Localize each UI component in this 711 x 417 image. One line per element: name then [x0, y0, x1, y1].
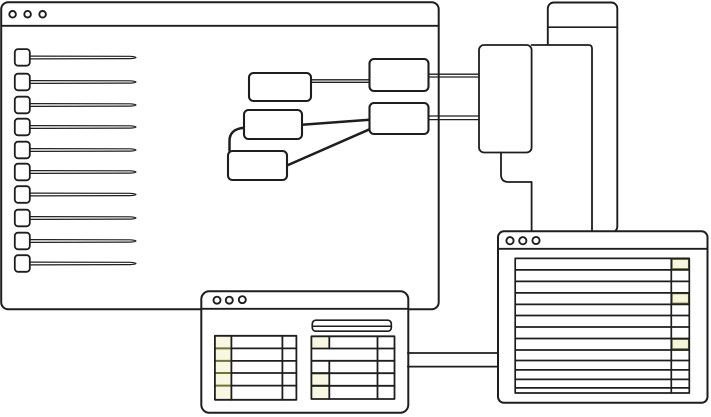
- checklist row 10: [15, 255, 136, 272]
- connector centre window to right window double line: [408, 353, 498, 367]
- list table olive cells: [672, 259, 689, 349]
- funnel right rectangle: [532, 45, 592, 231]
- traffic light dot 2: [24, 11, 31, 18]
- dot 3: [532, 237, 539, 244]
- right table grid: [311, 336, 394, 399]
- box D: [370, 103, 429, 134]
- connector C to E curve: [230, 128, 245, 151]
- box E: [228, 151, 287, 180]
- search bar above right table: [312, 320, 391, 331]
- bottom-centre window: [201, 291, 408, 413]
- list table grid: [515, 258, 689, 393]
- dot 1: [214, 297, 221, 304]
- checklist row 3: [15, 97, 136, 114]
- main browser window: [1, 2, 439, 309]
- traffic light dot 3: [39, 11, 46, 18]
- box A: [249, 73, 311, 101]
- dot 3: [239, 296, 246, 303]
- left table grid: [215, 336, 297, 400]
- checklist row 2: [15, 74, 136, 91]
- checklist row 1: [15, 49, 136, 66]
- connector C to D: [302, 120, 370, 125]
- connector B to funnel double line: [429, 74, 480, 77]
- checklist row 9: [15, 233, 136, 250]
- funnel shape white body: [479, 45, 592, 231]
- tall app column window: [548, 3, 618, 233]
- box B: [370, 59, 429, 91]
- flowchart: [228, 59, 479, 180]
- checklist row 4: [15, 119, 136, 136]
- dot 2: [226, 297, 233, 304]
- connector D to funnel double line: [429, 116, 480, 120]
- title bar line: [1, 25, 439, 27]
- dot 2: [519, 237, 526, 244]
- title bar line: [498, 248, 708, 250]
- bottom-right window: [498, 231, 708, 402]
- checklist row 8: [15, 210, 136, 227]
- funnel head rounded rect: [479, 45, 532, 153]
- checklist row 5: [15, 142, 136, 159]
- title bar line: [201, 308, 408, 310]
- funnel neck step: [501, 153, 532, 183]
- checklist row 6: [15, 164, 136, 181]
- box C: [244, 110, 302, 139]
- right table olive column cells: [312, 337, 328, 398]
- right table olive column boundaries: [312, 373, 330, 386]
- dot 1: [506, 237, 513, 244]
- left table olive column boundaries: [215, 348, 231, 385]
- connector A to B double line: [311, 80, 370, 83]
- checklist: [15, 49, 136, 272]
- checklist row 7: [15, 186, 136, 203]
- left table olive column fill: [216, 337, 231, 399]
- traffic light dot 1: [9, 11, 16, 18]
- connector E to D: [287, 129, 370, 165]
